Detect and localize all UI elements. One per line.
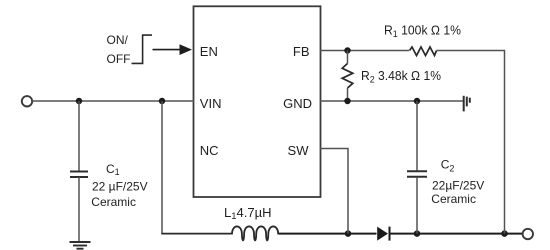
node SW/rail junction: [345, 230, 352, 237]
resistor R2: [342, 64, 353, 89]
wire C2 top lead: [416, 101, 418, 171]
wire C1 bottom lead: [78, 177, 80, 242]
wire diode to output node: [390, 233, 505, 235]
output terminal: [523, 229, 533, 239]
svg-text:SW: SW: [288, 143, 310, 158]
ON/OFF signal label: [107, 33, 131, 66]
rising-edge symbol: [132, 35, 153, 63]
C1 value label: [91, 162, 147, 209]
svg-text:GND: GND: [283, 96, 312, 111]
svg-text:C2: C2: [441, 158, 455, 174]
wire R2 top lead: [347, 51, 349, 64]
wire rail left segment: [161, 233, 231, 235]
node output/rail junction: [501, 230, 508, 237]
svg-text:22µF/25V: 22µF/25V: [432, 178, 484, 192]
wire rail L1 to SW node: [279, 233, 377, 235]
resistor R1: [410, 47, 437, 56]
svg-text:Ceramic: Ceramic: [431, 192, 476, 206]
svg-text:Ceramic: Ceramic: [91, 195, 136, 209]
wire right vertical (Vout): [504, 50, 506, 234]
EN arrow: [153, 44, 193, 55]
svg-text:OFF: OFF: [107, 52, 131, 66]
svg-text:R2 3.48k Ω 1%: R2 3.48k Ω 1%: [361, 68, 441, 86]
capacitor C1: [70, 172, 88, 178]
diode D1: [377, 227, 389, 241]
capacitor C2: [407, 171, 427, 177]
node VIN/L1 junction: [159, 98, 166, 105]
wire C2 bottom lead: [416, 177, 418, 234]
wire FB pin to node: [320, 50, 409, 52]
ground (input side): [70, 242, 91, 249]
svg-text:NC: NC: [200, 143, 219, 158]
wire VIN to bottom rail: [161, 101, 163, 234]
svg-text:C1: C1: [106, 162, 120, 177]
ground (output side, rotated): [464, 96, 470, 112]
wire C1 top lead: [78, 101, 80, 171]
svg-text:FB: FB: [293, 44, 310, 59]
wire VIN: [32, 100, 194, 102]
C2 value label: [431, 158, 484, 207]
node FB junction: [344, 47, 351, 54]
node VIN/C1 junction: [76, 98, 83, 105]
wire R2 bottom lead: [347, 88, 349, 101]
svg-text:ON/: ON/: [107, 33, 129, 47]
node C2/GND junction: [414, 98, 421, 105]
inductor L1: [231, 226, 279, 240]
svg-text:VIN: VIN: [200, 96, 222, 111]
wire GND pin to ground: [320, 100, 463, 102]
svg-text:L14.7µH: L14.7µH: [224, 205, 271, 222]
svg-text:EN: EN: [200, 44, 218, 59]
node C2/rail junction: [414, 230, 421, 237]
node R2/GND junction: [344, 98, 351, 105]
wire R1 to right rail: [437, 50, 505, 52]
svg-text:22 µF/25V: 22 µF/25V: [92, 180, 148, 194]
wire SW pin: [320, 149, 348, 234]
IC U1 body: [194, 6, 321, 197]
input terminal: [22, 96, 32, 106]
svg-text:R1 100k Ω 1%: R1 100k Ω 1%: [384, 23, 461, 41]
wire rail to output terminal: [505, 233, 523, 235]
